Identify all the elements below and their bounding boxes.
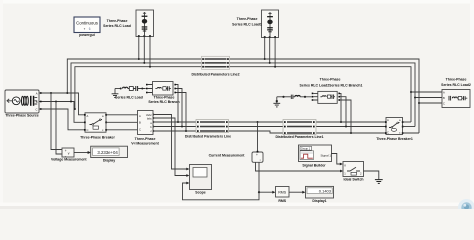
three-phase source block: [5, 90, 39, 113]
RMS block: [276, 187, 290, 198]
wire: breaker a to V-I A: [106, 114, 138, 116]
ground (series RLC load2 chain): [273, 97, 280, 107]
svg-text:v: v: [68, 151, 70, 155]
top bus phase1 wire: [67, 59, 419, 133]
wire: source C to breaker C: [39, 109, 85, 130]
ground (ideal switch): [375, 180, 383, 184]
wire: source B to breaker B: [39, 102, 85, 123]
distributed parameters line1 block: [283, 120, 316, 135]
svg-text:Distributed Parameters Line1: Distributed Parameters Line1: [275, 135, 323, 139]
svg-text:Iabc: Iabc: [147, 117, 153, 121]
svg-text:Three-Phase: Three-Phase: [446, 78, 467, 82]
wire: current signal branch to scope input3: [183, 183, 260, 200]
svg-text:Distributed Parameters Line2: Distributed Parameters Line2: [191, 73, 239, 77]
wire: source A to breaker A: [39, 93, 85, 115]
wire: branch1 out C down to bus c: [340, 100, 351, 133]
svg-text:A: A: [139, 114, 141, 118]
svg-text:C: C: [87, 128, 89, 132]
wire: breaker1 out a to riser: [403, 121, 412, 123]
wire: load C down to bus phase3: [149, 37, 151, 67]
wire: current signal i to RMS and scope: [259, 162, 274, 192]
three-phase V-I measurement block: [138, 111, 154, 135]
top bus phase3 wire: [75, 67, 411, 122]
svg-text:Three-Phase Breaker1: Three-Phase Breaker1: [376, 137, 413, 141]
wire: Iabc signal to scope input2: [153, 118, 188, 176]
svg-text:RMS: RMS: [278, 199, 286, 203]
junction node: chain dots: [120, 88, 122, 90]
wire: breaker b to V-I B: [106, 121, 138, 123]
wire: ideal switch 2 to ground: [364, 171, 379, 179]
svg-text:B: B: [443, 96, 445, 100]
scope block: [190, 165, 212, 190]
current measurement block: [252, 151, 263, 163]
V-I measurement output port arrows: [153, 113, 155, 132]
source port marks: [40, 92, 42, 110]
wire: breaker1 out c to riser: [403, 132, 420, 134]
svg-text:Series RLC Load: Series RLC Load: [103, 24, 131, 28]
wire: RMS to display1: [289, 191, 304, 193]
wire: node C to load2 C: [419, 102, 442, 104]
junction node: load2 taps: [410, 91, 420, 104]
display block (3.233e+04): [91, 146, 128, 157]
voltage measurement block: [62, 148, 74, 158]
svg-text:C: C: [443, 102, 445, 106]
wire: load B down to bus phase2: [143, 37, 145, 63]
svg-text:B: B: [36, 100, 38, 104]
svg-text:Voltage Measurement: Voltage Measurement: [51, 158, 87, 162]
svg-text:Distributed Parameters Line: Distributed Parameters Line: [185, 135, 231, 139]
svg-text:Current Measurement: Current Measurement: [209, 154, 246, 158]
wire: breaker1 out b to riser: [403, 126, 416, 128]
svg-text:Three-Phase: Three-Phase: [320, 77, 341, 81]
wire: branch1 out A down to bus a: [340, 93, 341, 122]
svg-text:A: A: [36, 91, 38, 95]
three-phase series RLC load2 block: [442, 90, 470, 108]
svg-text:RMS: RMS: [278, 190, 287, 194]
svg-text:C: C: [36, 108, 38, 112]
svg-text:Group 1: Group 1: [301, 147, 311, 151]
wire: load1 B down to bus phase2: [269, 38, 271, 63]
logo watermark bottom-right: [458, 199, 474, 216]
distributed parameters line block: [196, 120, 229, 133]
wire: load A down to bus phase1: [138, 37, 140, 59]
ground (series RLC load chain): [112, 89, 119, 98]
three-phase breaker block: [85, 113, 106, 132]
breaker1 port marks: [385, 121, 404, 134]
wire: voltage measurement tap phase B: [56, 102, 62, 155]
svg-text:3.233e+04: 3.233e+04: [97, 150, 118, 155]
svg-text:Series RLC Load2Series RLC Bra: Series RLC Load2Series RLC Branch1: [300, 84, 363, 88]
svg-text:Three-Phase: Three-Phase: [237, 17, 258, 21]
wire: Vabc signal to scope input1: [153, 115, 188, 170]
svg-text:C: C: [139, 128, 141, 132]
svg-text:Series RLC Load1: Series RLC Load1: [232, 22, 262, 26]
signal builder block: [299, 145, 332, 162]
wire: breaker c to V-I C: [106, 129, 138, 131]
wire: branch1 out B down to bus b: [340, 97, 346, 127]
wire: load1 C down to bus phase3: [274, 38, 276, 67]
wire: branch out C down to bus c: [176, 93, 186, 132]
svg-text:+: +: [65, 149, 67, 153]
svg-text:Three-Phase: Three-Phase: [154, 95, 175, 99]
wire: voltage measurement to display: [74, 152, 90, 154]
svg-text:Series RLC Load2: Series RLC Load2: [441, 83, 471, 87]
svg-text:A: A: [443, 91, 445, 95]
three-phase series RLC branch block: [146, 82, 176, 96]
wire: load1 A down to bus phase1: [264, 38, 266, 59]
top bus phase2 wire: [71, 63, 415, 127]
series RLC load2 chain: [277, 95, 312, 99]
svg-text:Three-Phase Breaker: Three-Phase Breaker: [80, 135, 115, 139]
three-phase series RLC load (top-left block): [136, 10, 154, 37]
svg-text:Three-Phase: Three-Phase: [107, 19, 128, 23]
svg-text:C: C: [387, 131, 389, 135]
bottom bus phase a wire: [153, 121, 386, 123]
powergui block (Continuous): [74, 17, 100, 33]
series RLC load chain (ground to branch): [115, 86, 146, 91]
svg-text:Three-Phase: Three-Phase: [135, 137, 156, 141]
svg-text:A: A: [87, 114, 89, 118]
junction node: branch1 drops on bus: [340, 121, 352, 134]
wire: voltage measurement tap phase A: [51, 93, 62, 150]
svg-text:Three-Phase Source: Three-Phase Source: [5, 114, 39, 118]
wire: signal builder to ideal switch gate: [331, 154, 342, 165]
svg-text:B: B: [139, 121, 141, 125]
junction node: load drops on bus: [138, 58, 276, 68]
three-phase series RLC branch1 block: [312, 91, 340, 103]
svg-text:powergui: powergui: [79, 33, 94, 37]
svg-text:+: +: [256, 153, 258, 157]
junction node: current measurement tap: [257, 121, 259, 123]
svg-text:Series RLC Branch: Series RLC Branch: [148, 100, 179, 104]
wire: branch out A down to bus a: [176, 85, 178, 123]
ideal switch block: [343, 162, 364, 177]
wire: branch out B down to bus b: [176, 89, 182, 127]
svg-text:0.1403: 0.1403: [319, 189, 332, 194]
svg-text:Ideal Switch: Ideal Switch: [344, 178, 364, 182]
display1 block (0.1403): [306, 186, 334, 198]
junction node: branch drops on bus: [177, 121, 187, 132]
bottom bus phase b wire: [153, 126, 386, 128]
svg-text:Vabc: Vabc: [146, 113, 153, 117]
distributed parameters line2 block: [202, 56, 230, 69]
wire: current measurement bottom to ideal switch 1: [256, 162, 342, 171]
wire: bus a down to current measurement: [257, 122, 259, 151]
svg-text:Display: Display: [103, 159, 115, 163]
svg-text:Display1: Display1: [312, 199, 326, 203]
svg-text:A: A: [387, 118, 389, 122]
svg-text:V-I Measurement: V-I Measurement: [131, 141, 159, 145]
svg-text:Signal Builder: Signal Builder: [302, 164, 326, 168]
svg-text:Continuous: Continuous: [76, 20, 98, 25]
svg-text:Signal 1: Signal 1: [321, 153, 332, 157]
svg-text:Scope: Scope: [195, 190, 205, 194]
bottom bus phase c wire: [153, 131, 386, 133]
three-phase breaker1 block: [386, 118, 403, 135]
junction node: riser taps on source wires: [50, 92, 76, 110]
svg-text:Series RLC Load: Series RLC Load: [115, 96, 143, 100]
breaker port marks: [84, 114, 107, 131]
wire: node B to load2 B: [415, 97, 442, 99]
wire: node A to load2 A: [411, 91, 442, 93]
three-phase series RLC load1 (top-right block): [262, 10, 279, 38]
